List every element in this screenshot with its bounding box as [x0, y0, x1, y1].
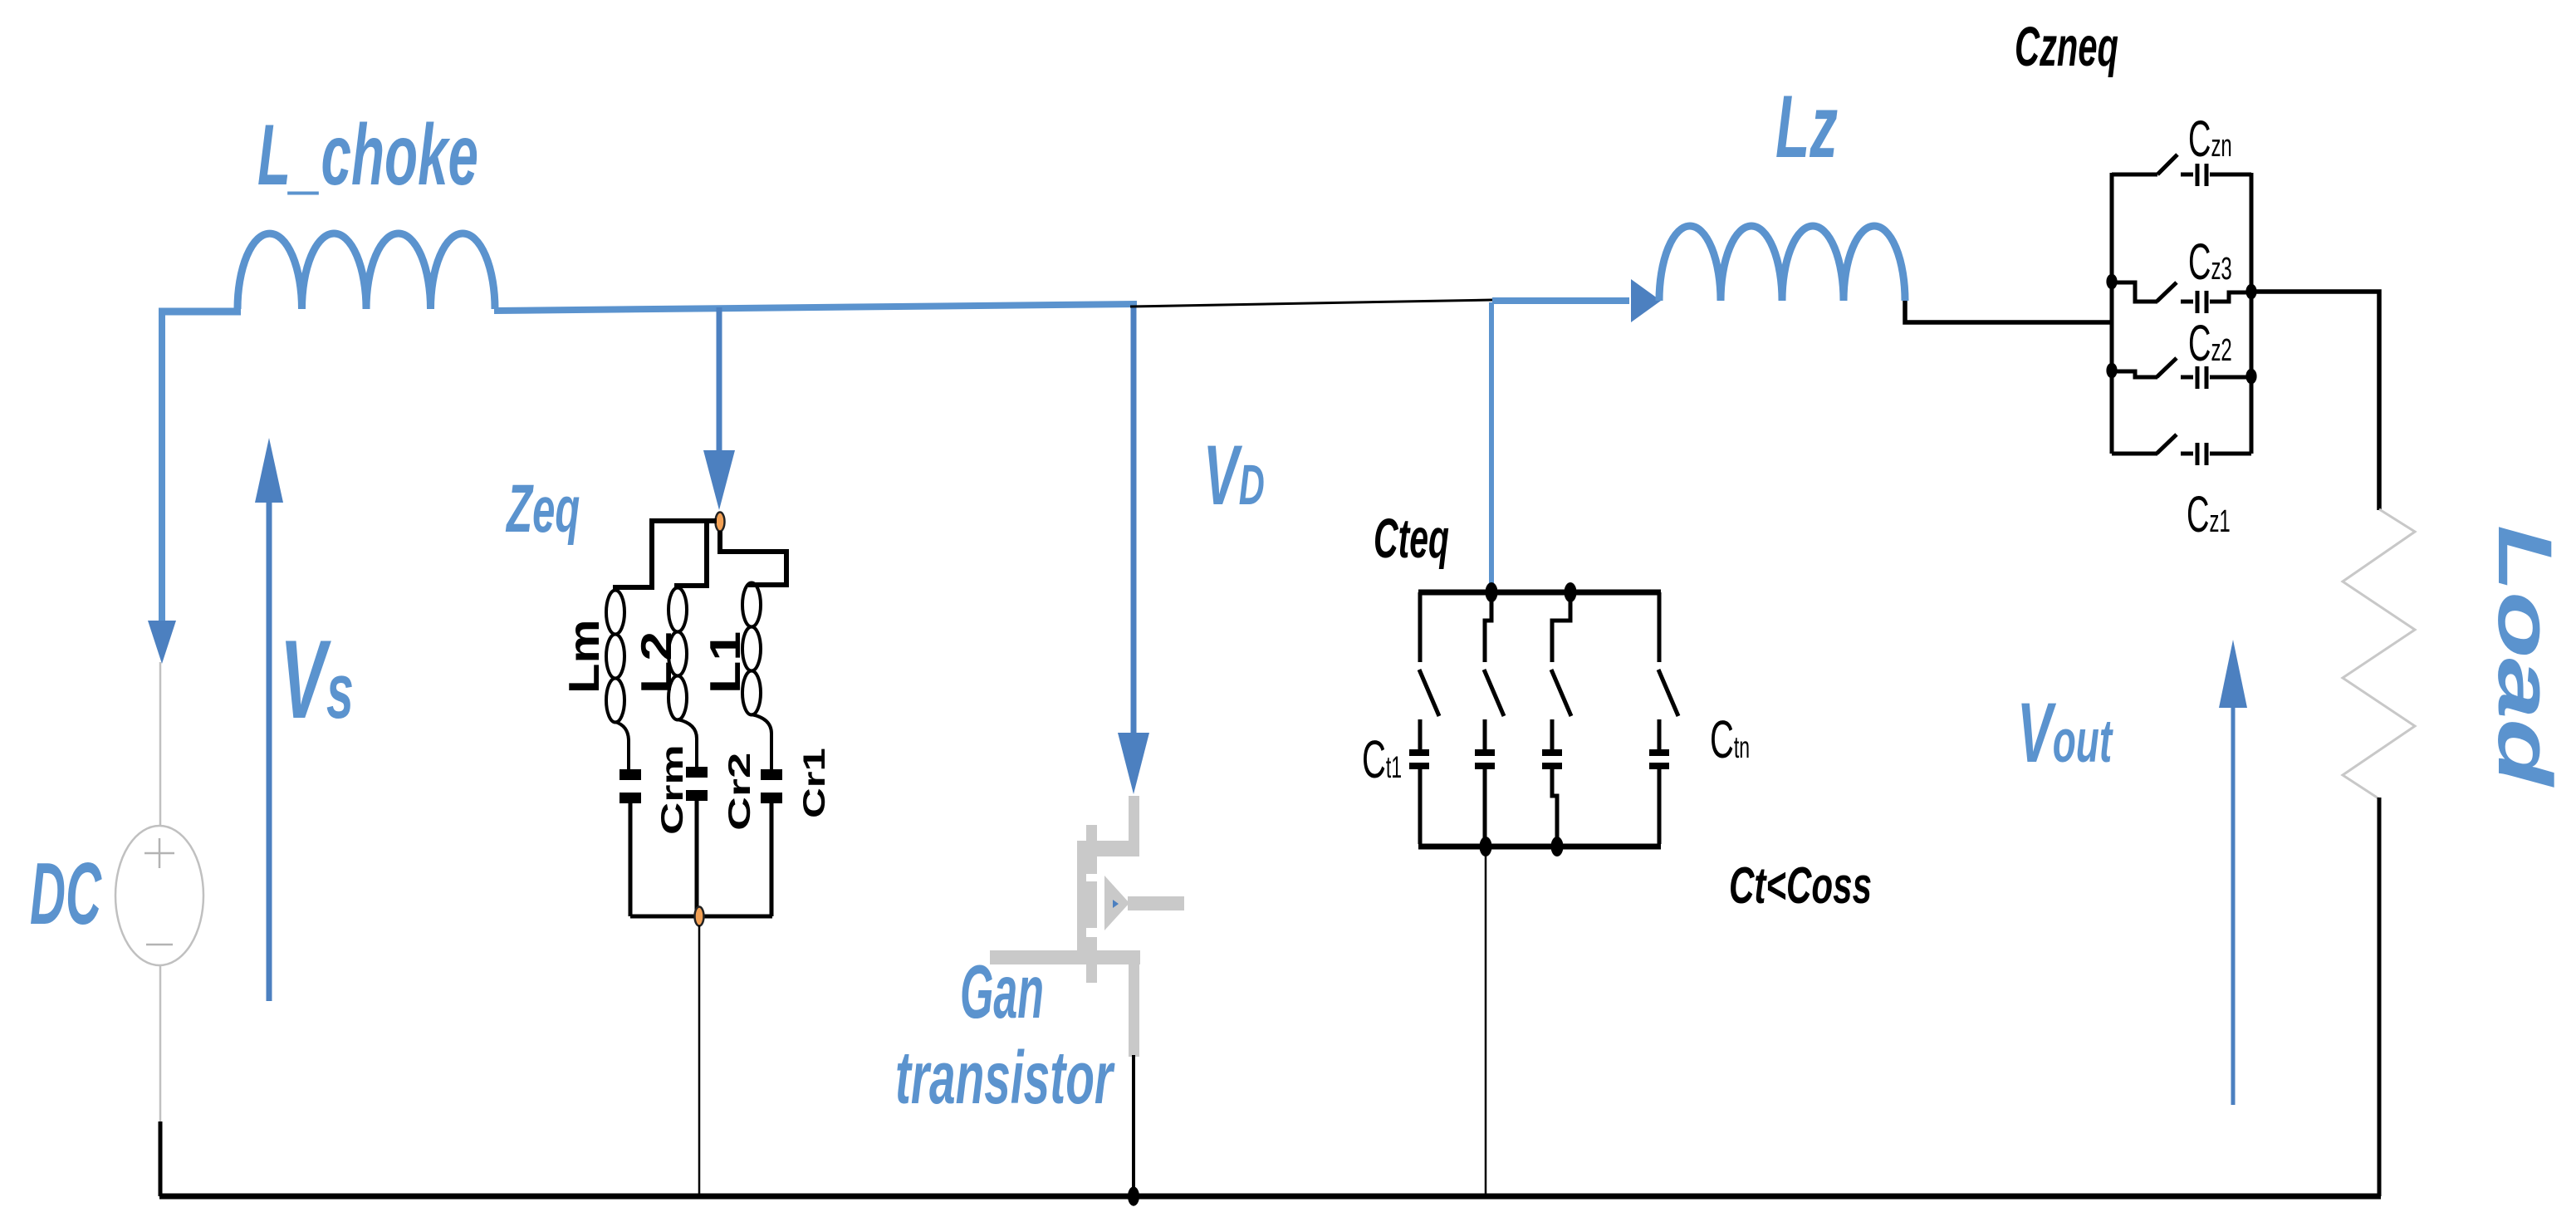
svg-text:Lz: Lz	[1775, 76, 1838, 176]
switch+capacitor Ct branch 4	[1658, 592, 1678, 844]
wire: Cteq top rail	[1418, 590, 1661, 596]
switch+capacitor Ct branch 3	[1551, 592, 1571, 844]
svg-text:DC: DC	[30, 844, 102, 943]
node: junction on bottom rail	[1128, 1186, 1139, 1205]
svg-text:L_choke: L_choke	[257, 106, 478, 203]
inductor L2 coil	[668, 588, 697, 768]
node: Cteq top rail dots	[1486, 582, 1498, 602]
wire: thin black top wire to Lz junction	[1130, 300, 1492, 307]
wire: Zeq bottom thin drop to rail	[698, 925, 701, 1196]
wire: Crm lead down	[629, 803, 633, 916]
transistor: drain bar	[1077, 841, 1139, 856]
capacitor Cr1 plates	[761, 769, 782, 780]
svg-text:Crm: Crm	[655, 744, 689, 835]
svg-text:Ct<Coss: Ct<Coss	[1729, 857, 1872, 915]
DC source minus	[146, 944, 173, 946]
wire: Czneq left rail	[2110, 173, 2114, 454]
arrow: down into DC source	[148, 621, 176, 664]
svg-text:Lm: Lm	[560, 619, 608, 694]
resistor Load zigzag	[2343, 509, 2415, 798]
DC source ellipse	[115, 826, 203, 965]
transistor: channel bar left	[1077, 841, 1086, 954]
inductor Lm coil	[606, 591, 629, 770]
wire: top horizontal L_choke to VD junction	[494, 304, 1137, 311]
switch+capacitor Ct branch 2	[1484, 592, 1504, 844]
wire: black left riser to bottom rail	[159, 1121, 163, 1196]
svg-text:Zeq: Zeq	[506, 471, 580, 547]
svg-text:L2: L2	[632, 631, 680, 694]
inductor L1 coil	[742, 583, 771, 770]
wire: Cteq thin drop to rail	[1485, 847, 1487, 1194]
transistor: body pin bar	[1128, 896, 1184, 910]
transistor Q1 GaN: drain lead	[1129, 796, 1139, 846]
capacitor Crm plates	[620, 769, 641, 780]
svg-text:L1: L1	[701, 631, 749, 694]
capacitor Cr2 plates	[686, 767, 708, 778]
arrow: down into Zeq	[717, 307, 722, 455]
switch+capacitor Cz1 row 4	[2112, 434, 2251, 465]
wire: left vertical from top corner down to DC arrow	[159, 309, 165, 629]
wire: blue drop to Cteq	[1489, 302, 1494, 590]
node: orange top node of Zeq	[716, 513, 725, 532]
wire: Lz to Czneq	[1905, 301, 2110, 322]
transistor: source lead	[1129, 950, 1139, 1057]
svg-text:Gan: Gan	[960, 950, 1044, 1034]
switch+capacitor Ct branch 1	[1419, 592, 1439, 844]
wire: Czneq output to load	[2251, 292, 2379, 510]
wire: Zeq top to branch L2	[674, 523, 707, 586]
DC source plus	[144, 838, 174, 868]
arrow Vs (up)	[267, 503, 272, 1001]
wire: Czneq right rail	[2250, 173, 2254, 454]
svg-text:Load: Load	[2482, 525, 2568, 788]
wire: bottom rail	[159, 1194, 2381, 1200]
wire: source thin drop to rail	[1132, 1055, 1135, 1196]
wire: Cteq bottom rail	[1418, 844, 1661, 850]
wire: top-left horizontal corner to L_choke	[159, 308, 241, 316]
transistor: body arrow triangle	[1104, 876, 1129, 930]
node: Czneq right rail dots	[2245, 284, 2256, 300]
switch+capacitor Cz3 row 2	[2112, 282, 2251, 313]
wire: Zeq top to branch L1	[720, 531, 786, 585]
wire: blue horizontal into Lz with arrow	[1492, 297, 1629, 304]
transistor: gate bottom bar	[990, 950, 1140, 964]
svg-text:transistor: transistor	[895, 1035, 1115, 1119]
wire: Zeq top to branch Lm	[613, 521, 717, 587]
wire: Cr2 lead down	[695, 801, 699, 916]
inductor L_choke coil	[238, 233, 495, 309]
wire: load bottom riser	[2378, 798, 2382, 1196]
svg-text:Cteq: Cteq	[1374, 507, 1449, 570]
transistor: small blue arrow	[1113, 900, 1119, 908]
transistor: channel segments	[1086, 825, 1097, 874]
node: orange bottom node of Zeq	[695, 907, 704, 926]
node: Czneq left rail dots	[2106, 274, 2117, 290]
svg-text:Czneq: Czneq	[2015, 15, 2118, 78]
transistor: gate stub below	[1086, 964, 1097, 983]
arrow VD (down)	[1131, 307, 1137, 738]
switch+capacitor Cz2 row 3	[2112, 358, 2251, 389]
wire: Zeq bottom rail	[630, 915, 772, 919]
wire: Cr1 lead down	[770, 803, 774, 916]
switch+capacitor Czn row 1	[2112, 155, 2251, 186]
inductor Lz coil	[1659, 226, 1905, 301]
wire: gray lead above DC	[159, 662, 162, 827]
arrow Vout (up)	[2231, 703, 2236, 1105]
node: Cteq bottom rail dots	[1480, 837, 1492, 856]
wire: gray lead below DC	[159, 965, 162, 1123]
svg-text:Cr1: Cr1	[797, 748, 831, 818]
svg-text:Cr2: Cr2	[722, 753, 757, 831]
